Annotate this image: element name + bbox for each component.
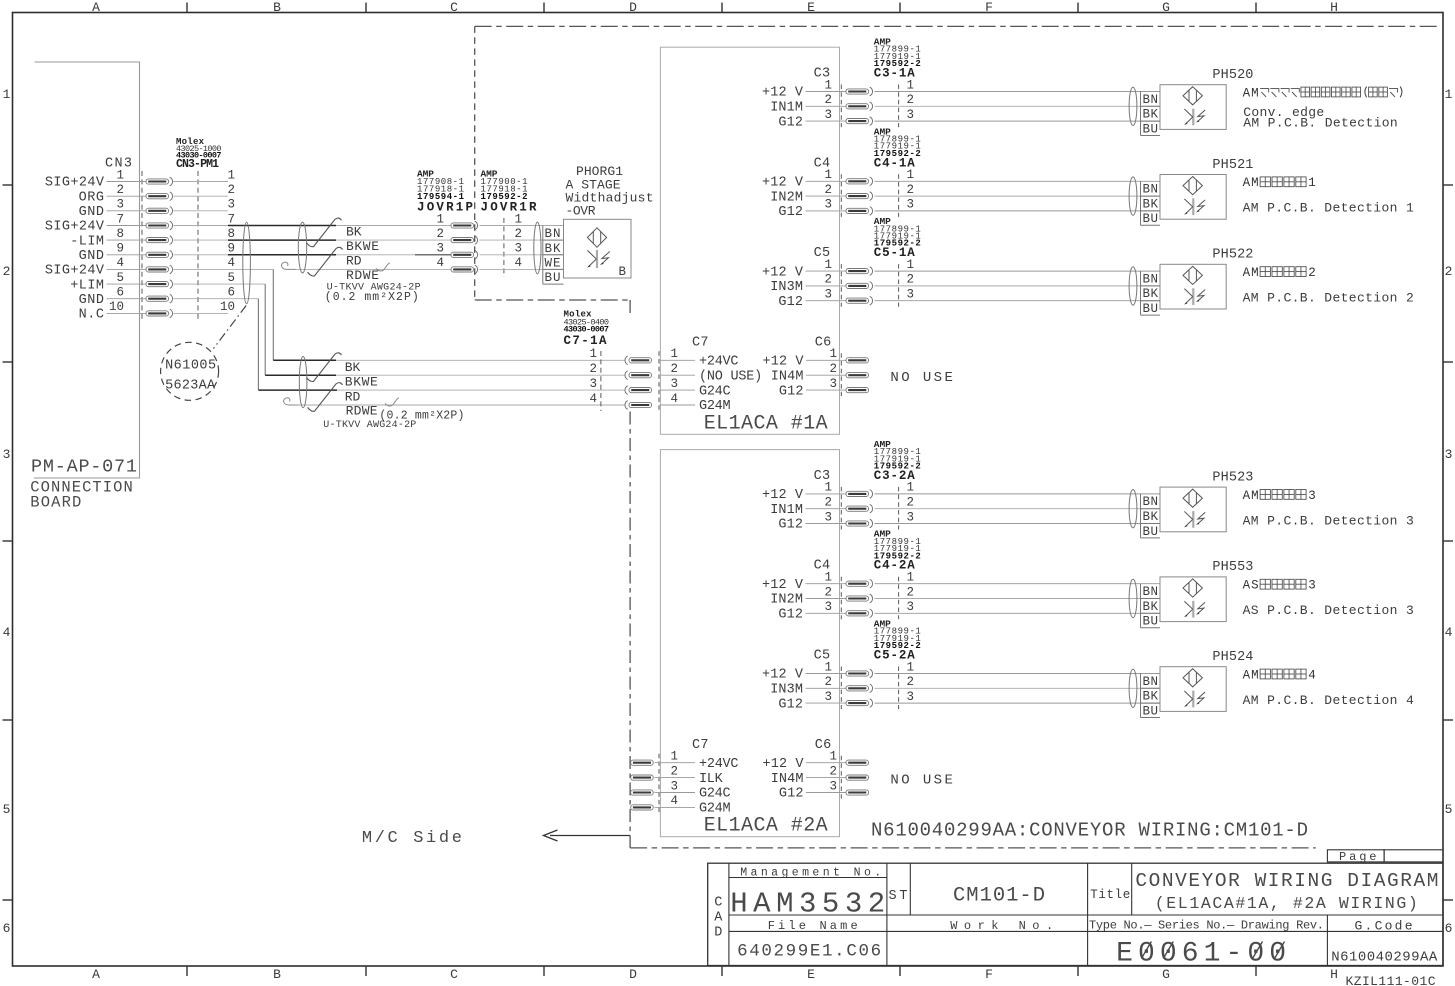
svg-text:RDWE: RDWE bbox=[346, 404, 378, 419]
svg-text:+12 V: +12 V bbox=[762, 488, 804, 503]
C6 (#1A) pin 2 contact bbox=[846, 373, 869, 378]
svg-text:BN: BN bbox=[1143, 675, 1159, 689]
svg-text:1: 1 bbox=[227, 168, 235, 182]
wire BKWE lower bundle (dark) bbox=[265, 374, 336, 376]
svg-text:BK: BK bbox=[345, 360, 361, 375]
cable tie at PH522 bbox=[1129, 267, 1137, 305]
svg-text:6: 6 bbox=[227, 286, 235, 300]
svg-text:G: G bbox=[1162, 0, 1170, 15]
svg-text:BN: BN bbox=[1143, 183, 1159, 197]
C5 (#1A) pin 1 lead line bbox=[806, 270, 847, 272]
connector C5 mating line (dashed) bbox=[840, 667, 842, 710]
svg-text:BU: BU bbox=[1143, 525, 1159, 539]
svg-text:10: 10 bbox=[109, 300, 124, 314]
svg-text:-LIM: -LIM bbox=[70, 234, 104, 249]
connector CN3 mating line (dashed) bbox=[141, 171, 143, 320]
svg-text:4: 4 bbox=[1308, 668, 1316, 682]
svg-text:BU: BU bbox=[1143, 704, 1159, 718]
svg-text:4: 4 bbox=[1445, 625, 1453, 640]
svg-text:JOVR1R: JOVR1R bbox=[481, 201, 537, 215]
svg-text:IN1M: IN1M bbox=[770, 503, 803, 518]
cable tie 1 (tall oval) bbox=[243, 222, 251, 303]
svg-text:JOVR1P: JOVR1P bbox=[417, 201, 473, 215]
CN3-PM1 pin 8 contact bbox=[146, 236, 173, 245]
CN3-PM1 pin 7 contact bbox=[146, 221, 173, 230]
svg-text:BU: BU bbox=[545, 271, 561, 285]
svg-text:3: 3 bbox=[906, 198, 914, 212]
svg-text:3: 3 bbox=[1308, 489, 1316, 503]
C5 (#2A) pin 2 lead line bbox=[806, 687, 847, 689]
svg-text:4: 4 bbox=[116, 256, 124, 270]
C5 (#2A) pin 1 contact bbox=[846, 669, 873, 678]
svg-text:8: 8 bbox=[227, 227, 235, 241]
svg-text:WE: WE bbox=[545, 256, 561, 270]
svg-text:G12: G12 bbox=[778, 205, 803, 220]
svg-text:4: 4 bbox=[670, 392, 678, 406]
wire CN3 pin4 SIG+24V horizontal bbox=[174, 268, 274, 270]
photo sensor PH520 body bbox=[1160, 85, 1226, 130]
wire CN3 pin 3 stub bbox=[174, 210, 229, 212]
svg-text:PH521: PH521 bbox=[1212, 158, 1253, 173]
svg-text:PH553: PH553 bbox=[1212, 560, 1253, 575]
cable tie at PH523 bbox=[1129, 490, 1137, 528]
svg-text:BU: BU bbox=[1143, 122, 1159, 136]
connector JOVR1R mating line (dashed) bbox=[503, 218, 505, 277]
PH553 optics symbol (diamond) bbox=[1183, 579, 1202, 597]
svg-text:640299E1.C06: 640299E1.C06 bbox=[737, 942, 881, 962]
wire BKWE lower to C7-1A pin2 bbox=[336, 374, 625, 376]
svg-text:BN: BN bbox=[545, 227, 561, 241]
svg-text:3: 3 bbox=[829, 779, 837, 793]
svg-text:ILK: ILK bbox=[699, 772, 724, 787]
svg-text:A: A bbox=[714, 911, 723, 926]
svg-text:2: 2 bbox=[829, 362, 837, 376]
cable tie 2 bbox=[298, 222, 306, 273]
svg-text:2: 2 bbox=[824, 183, 832, 197]
svg-text:D: D bbox=[629, 967, 637, 982]
PH524 optics symbol (diamond) bbox=[1183, 669, 1202, 687]
svg-text:BN: BN bbox=[1143, 495, 1159, 509]
svg-text:AM P.C.B. Detection 4: AM P.C.B. Detection 4 bbox=[1243, 693, 1414, 708]
svg-text:ORG: ORG bbox=[79, 190, 104, 205]
svg-text:3: 3 bbox=[906, 288, 914, 302]
svg-text:C4-1A: C4-1A bbox=[874, 156, 915, 170]
PHORG1 optics symbol (diamond) bbox=[587, 228, 606, 247]
cable break symbol upper BK/BKWE bbox=[307, 218, 342, 247]
wire BK CN3 pin7 to JOVR1P pin1 (dark section) bbox=[228, 225, 336, 227]
CN3 pin 8 lead line bbox=[107, 239, 147, 241]
C3 (#1A) pin 2 lead line bbox=[806, 105, 847, 107]
svg-text:BN: BN bbox=[1143, 93, 1159, 107]
svg-text:B: B bbox=[619, 265, 627, 279]
svg-text:4: 4 bbox=[670, 794, 678, 808]
svg-text:AM P.C.B. Detection 1: AM P.C.B. Detection 1 bbox=[1243, 201, 1414, 216]
svg-text:AS P.C.B. Detection 3: AS P.C.B. Detection 3 bbox=[1243, 603, 1414, 618]
svg-text:GND: GND bbox=[79, 293, 104, 308]
CN3 pin 2 lead line bbox=[107, 195, 147, 197]
wire RDWE lower hook bbox=[284, 398, 298, 405]
frame zone ticks left bbox=[3, 184, 13, 186]
svg-text:C7: C7 bbox=[692, 335, 709, 350]
frame zone ticks bottom bbox=[186, 966, 188, 976]
svg-text:+24VC: +24VC bbox=[699, 757, 739, 772]
svg-text:GND: GND bbox=[79, 249, 104, 264]
svg-text:+12 V: +12 V bbox=[762, 265, 804, 280]
svg-text:3: 3 bbox=[824, 288, 832, 302]
svg-text:2: 2 bbox=[116, 183, 124, 197]
C5 (#2A) pin 2 contact bbox=[846, 684, 873, 693]
svg-text:5: 5 bbox=[227, 271, 235, 285]
svg-text:1: 1 bbox=[824, 571, 832, 585]
CN3-PM1 pin 1 contact bbox=[146, 177, 173, 186]
svg-text:1: 1 bbox=[824, 168, 832, 182]
svg-text:SIG+24V: SIG+24V bbox=[45, 220, 105, 235]
wire CN3 pin 10 stub bbox=[174, 312, 229, 314]
C3 (#2A) pin 3 lead line bbox=[806, 523, 847, 525]
svg-text:G24M: G24M bbox=[699, 802, 731, 817]
svg-text:BU: BU bbox=[1143, 615, 1159, 629]
C4 (#1A) pin 1 lead line bbox=[806, 180, 847, 182]
PH521 wire label box frame bbox=[1140, 181, 1142, 225]
PH553 phototransistor symbol bbox=[1184, 601, 1205, 618]
svg-text:RD: RD bbox=[346, 253, 362, 268]
C7-1A pin 1 contact bbox=[625, 356, 652, 365]
C5 (#1A) pin 2 lead line bbox=[806, 285, 847, 287]
C4 (#2A) pin 1 lead line bbox=[806, 583, 847, 585]
svg-text:EL1ACA #1A: EL1ACA #1A bbox=[704, 412, 828, 435]
svg-text:BU: BU bbox=[1143, 302, 1159, 316]
svg-text:4: 4 bbox=[227, 256, 235, 270]
C6 (#2A) pin 1 lead line bbox=[806, 762, 846, 764]
svg-text:C5-2A: C5-2A bbox=[874, 649, 915, 663]
connector C4 mating line (dashed) bbox=[840, 174, 842, 217]
photo sensor PH523 wires BN/BK/BU bbox=[875, 493, 1161, 495]
PH523 wire label box frame bbox=[1140, 494, 1142, 538]
svg-text:B: B bbox=[273, 0, 281, 15]
svg-text:IN2M: IN2M bbox=[770, 593, 803, 608]
C4 (#1A) pin 2 lead line bbox=[806, 195, 847, 197]
wire CN3 pin5 vertical drop bbox=[264, 284, 266, 375]
svg-text:3: 3 bbox=[906, 510, 914, 524]
svg-text:+12 V: +12 V bbox=[762, 668, 804, 683]
svg-text:BK: BK bbox=[545, 242, 561, 256]
svg-text:(EL1ACA#1A, #2A WIRING): (EL1ACA#1A, #2A WIRING) bbox=[1155, 894, 1418, 913]
M/C side arrowhead bbox=[544, 830, 558, 841]
svg-text:C3-2A: C3-2A bbox=[874, 469, 915, 483]
svg-text:G12: G12 bbox=[778, 518, 803, 533]
C3 (#1A) pin 2 contact bbox=[846, 102, 873, 111]
wire RD CN3 pin9 to JOVR1P pin3 (dark section) bbox=[228, 254, 336, 256]
svg-text:3: 3 bbox=[227, 198, 235, 212]
photo sensor PH524 wires BN/BK/BU bbox=[875, 673, 1161, 675]
svg-text:3: 3 bbox=[824, 198, 832, 212]
svg-text:C: C bbox=[450, 0, 458, 15]
PH522 optics symbol (diamond) bbox=[1183, 266, 1202, 284]
PHORG1 wire label box frame bbox=[542, 226, 544, 285]
svg-text:E0061-00: E0061-00 bbox=[1116, 938, 1286, 969]
title block vertical dividers bbox=[728, 863, 730, 965]
C4 (#2A) pin 2 lead line bbox=[806, 598, 847, 600]
svg-text:3: 3 bbox=[1445, 447, 1453, 462]
CN3 pin 9 lead line bbox=[107, 254, 147, 256]
svg-text:9: 9 bbox=[227, 242, 235, 256]
C6 (#2A) pin 3 lead line bbox=[806, 792, 846, 794]
photo sensor PH523 body bbox=[1160, 487, 1226, 532]
C5 (#2A) pin 3 lead line bbox=[806, 702, 847, 704]
svg-text:(0.2 mm²X2P): (0.2 mm²X2P) bbox=[325, 291, 419, 304]
photo sensor PH522 wires BN/BK/BU bbox=[875, 270, 1161, 272]
C6 (#2A) pin 3 contact bbox=[846, 790, 869, 795]
svg-text:1: 1 bbox=[824, 258, 832, 272]
svg-text:8: 8 bbox=[116, 227, 124, 241]
wire JOVR1R pin 2 to PHORG1 bbox=[480, 239, 564, 241]
svg-text:3: 3 bbox=[436, 242, 444, 256]
M/C boundary vertical dash-dot at x=630 (upper) bbox=[629, 300, 631, 317]
wire BKWE CN3 pin8 light lead bbox=[174, 239, 229, 241]
CN3 pin 6 lead line bbox=[107, 298, 147, 300]
svg-text:Type No.— Series No.— Drawing: Type No.— Series No.— Drawing Rev. bbox=[1089, 919, 1324, 933]
C4 (#2A) pin 3 lead line bbox=[806, 612, 847, 614]
wire BK CN3 pin7 light lead bbox=[174, 225, 229, 227]
svg-text:H: H bbox=[1330, 967, 1338, 982]
svg-text:G12: G12 bbox=[779, 787, 804, 802]
C7-1A pin 4 contact bbox=[625, 401, 652, 410]
C3 (#2A) pin 2 contact bbox=[846, 504, 873, 513]
svg-text:1: 1 bbox=[670, 750, 678, 764]
svg-text:M/C Side: M/C Side bbox=[362, 829, 462, 848]
svg-text:RDWE: RDWE bbox=[346, 268, 379, 283]
svg-text:BK: BK bbox=[1143, 510, 1159, 524]
svg-text:G12: G12 bbox=[778, 295, 803, 310]
svg-text:2: 2 bbox=[906, 273, 914, 287]
M/C boundary top dash-dot line bbox=[475, 25, 1440, 27]
C4 (#2A) pin 1 contact bbox=[846, 579, 873, 588]
svg-text:2: 2 bbox=[514, 227, 522, 241]
C3 (#2A) pin 2 lead line bbox=[806, 508, 847, 510]
C7 (#1A) pin 4 lead line bbox=[660, 404, 695, 406]
PH522 wire label box frame bbox=[1140, 271, 1142, 315]
svg-text:AM: AM bbox=[1243, 176, 1259, 190]
svg-text:G12: G12 bbox=[778, 115, 803, 130]
svg-text:PH524: PH524 bbox=[1212, 650, 1253, 665]
C6 (#1A) pin 1 lead line bbox=[806, 359, 846, 361]
JOVR1P pin 1 contact bbox=[451, 221, 478, 230]
svg-text:3: 3 bbox=[906, 108, 914, 122]
C6 (#1A) pin 1 contact bbox=[846, 358, 869, 363]
svg-text:PM-AP-071: PM-AP-071 bbox=[31, 457, 137, 478]
cable tie lower bundle bbox=[299, 357, 307, 408]
wire CN3 pin6 GND horizontal bbox=[174, 298, 259, 300]
C3 (#2A) pin 1 lead line bbox=[806, 493, 847, 495]
svg-text:G12: G12 bbox=[778, 608, 803, 623]
C3 (#1A) pin 1 lead line bbox=[806, 91, 847, 93]
svg-text:1: 1 bbox=[3, 87, 11, 102]
CN3-PM1 pin 3 contact bbox=[146, 207, 173, 216]
svg-text:1: 1 bbox=[436, 212, 444, 226]
svg-text:C7-1A: C7-1A bbox=[564, 334, 607, 348]
CN3 pin 3 lead line bbox=[107, 210, 147, 212]
C7-2A contacts at boundary bbox=[631, 760, 654, 765]
JOVR1P pin 4 contact bbox=[451, 265, 478, 274]
svg-text:E: E bbox=[807, 967, 815, 982]
C4 (#1A) pin 3 contact bbox=[846, 207, 873, 216]
svg-text:BN: BN bbox=[1143, 272, 1159, 286]
svg-text:BKWE: BKWE bbox=[345, 375, 378, 390]
PH520 optics symbol (diamond) bbox=[1183, 87, 1202, 105]
svg-text:3: 3 bbox=[829, 377, 837, 391]
svg-text:2: 2 bbox=[670, 362, 678, 376]
wire RDWE lower to C7-1A pin4 bbox=[298, 404, 625, 406]
svg-text:+12 V: +12 V bbox=[763, 355, 805, 370]
C5 (#1A) pin 1 contact bbox=[846, 267, 873, 276]
svg-text:AM: AM bbox=[1243, 489, 1259, 503]
balloon leader line (dash-dot) bbox=[214, 306, 247, 349]
frame zone ticks top bbox=[186, 3, 188, 13]
svg-text:HAM3532: HAM3532 bbox=[730, 888, 885, 921]
svg-text:+12 V: +12 V bbox=[762, 578, 804, 593]
JOVR1P pin 2 contact bbox=[451, 236, 478, 245]
PH524 wire label box frame bbox=[1140, 674, 1142, 718]
svg-text:GND: GND bbox=[79, 205, 104, 220]
cable break symbol lower BK/BKWE bbox=[307, 353, 342, 382]
M/C side arrow line bbox=[550, 835, 630, 837]
svg-text:IN3M: IN3M bbox=[770, 280, 803, 295]
svg-text:5: 5 bbox=[1445, 802, 1453, 817]
connector C5-1A mating line (dashed) bbox=[898, 264, 900, 307]
PH521 optics symbol (diamond) bbox=[1183, 177, 1202, 195]
wire JOVR1R pin 4 to PHORG1 bbox=[480, 268, 564, 270]
CN3 pin 5 lead line bbox=[107, 283, 147, 285]
photo sensor PHORG1 body bbox=[564, 219, 632, 278]
svg-text:BOARD: BOARD bbox=[30, 494, 81, 512]
svg-text:C4-2A: C4-2A bbox=[874, 559, 915, 573]
title block outline bbox=[708, 863, 1443, 965]
CN3 pin 10 lead line bbox=[107, 312, 147, 314]
svg-text:4: 4 bbox=[436, 256, 444, 270]
C5 (#1A) pin 3 lead line bbox=[806, 300, 847, 302]
svg-text:N.C: N.C bbox=[79, 308, 104, 323]
CN3-PM1 pin 9 contact bbox=[146, 251, 173, 260]
C7 (#2A) pin 1 lead line bbox=[660, 762, 695, 764]
C4 (#1A) pin 3 lead line bbox=[806, 210, 847, 212]
svg-text:AM P.C.B. Detection 3: AM P.C.B. Detection 3 bbox=[1243, 513, 1414, 528]
svg-text:AM: AM bbox=[1243, 266, 1259, 280]
svg-text:C7: C7 bbox=[692, 738, 709, 753]
PHORG1 phototransistor symbol bbox=[587, 250, 610, 268]
controller unit EL1ACA #2A body bbox=[660, 450, 839, 837]
cable break symbol lower RD/RDWE bbox=[308, 383, 343, 412]
svg-text:G24M: G24M bbox=[699, 399, 731, 414]
svg-text:1: 1 bbox=[589, 347, 597, 361]
connector C7 (#1A) mating line (dashed) bbox=[658, 351, 660, 411]
photo sensor PH521 body bbox=[1160, 175, 1226, 220]
svg-text:A: A bbox=[92, 967, 100, 982]
connector C6 (#2A) mating line (dashed) bbox=[840, 756, 842, 799]
svg-text:1: 1 bbox=[1445, 87, 1453, 102]
svg-text:CM101-D: CM101-D bbox=[953, 885, 1045, 908]
C3 (#1A) pin 3 lead line bbox=[806, 120, 847, 122]
wire RDWE hook at CN3 side bbox=[282, 262, 296, 269]
wire JOVR1R pin 1 to PHORG1 bbox=[480, 225, 564, 227]
svg-text:N61005: N61005 bbox=[165, 358, 216, 373]
cable tie at PH520 bbox=[1129, 87, 1137, 125]
svg-text:2: 2 bbox=[1308, 266, 1316, 280]
PH520 phototransistor symbol bbox=[1184, 109, 1205, 126]
CN3 pin 1 lead line bbox=[107, 181, 147, 183]
connector C4-1A mating line (dashed) bbox=[898, 174, 900, 217]
svg-text:BU: BU bbox=[1143, 212, 1159, 226]
C7 (#2A) pin 2 lead line bbox=[660, 777, 695, 779]
svg-text:6: 6 bbox=[3, 921, 11, 936]
svg-text:5: 5 bbox=[3, 802, 11, 817]
C7 (#1A) pin 3 lead line bbox=[660, 389, 695, 391]
connector C7 (#2A) mating line (dashed) bbox=[658, 754, 660, 814]
photo sensor PH524 body bbox=[1160, 667, 1226, 712]
svg-text:1: 1 bbox=[1308, 176, 1316, 190]
svg-text:G24C: G24C bbox=[699, 384, 731, 399]
svg-text:1: 1 bbox=[824, 481, 832, 495]
svg-text:2: 2 bbox=[829, 764, 837, 778]
svg-text:Title: Title bbox=[1090, 888, 1130, 902]
svg-text:SIG+24V: SIG+24V bbox=[45, 264, 105, 279]
PH553 wire label box frame bbox=[1140, 584, 1142, 628]
svg-text:3: 3 bbox=[824, 600, 832, 614]
svg-text:1: 1 bbox=[514, 212, 522, 226]
cable tie at PH553 bbox=[1129, 579, 1137, 617]
PH523 phototransistor symbol bbox=[1184, 511, 1205, 528]
JOVR1P pin 3 contact bbox=[451, 251, 478, 260]
svg-text:3: 3 bbox=[670, 779, 678, 793]
photo sensor PH553 body bbox=[1160, 577, 1226, 622]
photo sensor PH553 wires BN/BK/BU bbox=[875, 583, 1161, 585]
wire RD lower to C7-1A pin3 bbox=[337, 389, 625, 391]
C4 (#2A) pin 2 contact bbox=[846, 594, 873, 603]
cable tie at PHORG1 bbox=[534, 222, 541, 274]
wire RD lower bundle (dark) bbox=[258, 389, 337, 391]
CN3 pin 4 lead line bbox=[107, 268, 147, 270]
C3 (#2A) pin 1 contact bbox=[846, 490, 873, 499]
svg-text:2: 2 bbox=[906, 93, 914, 107]
svg-text:C: C bbox=[714, 896, 722, 911]
C5 (#2A) pin 3 contact bbox=[846, 699, 873, 708]
svg-text:PH520: PH520 bbox=[1212, 68, 1253, 83]
svg-text:1: 1 bbox=[116, 168, 124, 182]
PH521 phototransistor symbol bbox=[1184, 198, 1205, 215]
C6 (#1A) pin 2 lead line bbox=[806, 374, 846, 376]
connector C3-2A mating line (dashed) bbox=[898, 487, 900, 530]
connector C6 (#1A) mating line (dashed) bbox=[840, 353, 842, 396]
C4 (#1A) pin 2 contact bbox=[846, 192, 873, 201]
connector C3-1A mating line (dashed) bbox=[898, 85, 900, 128]
C7-1A pin 2 contact bbox=[625, 371, 652, 380]
svg-text:C3-1A: C3-1A bbox=[874, 67, 915, 81]
svg-text:ST: ST bbox=[889, 889, 908, 904]
svg-text:D: D bbox=[629, 0, 637, 15]
C7-1A pin 3 contact bbox=[625, 386, 652, 395]
PH524 phototransistor symbol bbox=[1184, 691, 1205, 708]
svg-text:1: 1 bbox=[824, 660, 832, 674]
svg-text:NO USE: NO USE bbox=[890, 772, 953, 788]
svg-text:F: F bbox=[985, 967, 993, 982]
svg-text:1: 1 bbox=[670, 347, 678, 361]
svg-text:IN4M: IN4M bbox=[771, 369, 804, 384]
C7 (#1A) pin 2 lead line bbox=[660, 374, 695, 376]
wire CN3 pin 2 stub bbox=[174, 195, 229, 197]
wire BK lower bundle (dark) bbox=[273, 359, 336, 361]
svg-text:N610040299AA: N610040299AA bbox=[1331, 949, 1438, 965]
svg-text:G24C: G24C bbox=[699, 787, 731, 802]
svg-text:G12: G12 bbox=[779, 384, 804, 399]
